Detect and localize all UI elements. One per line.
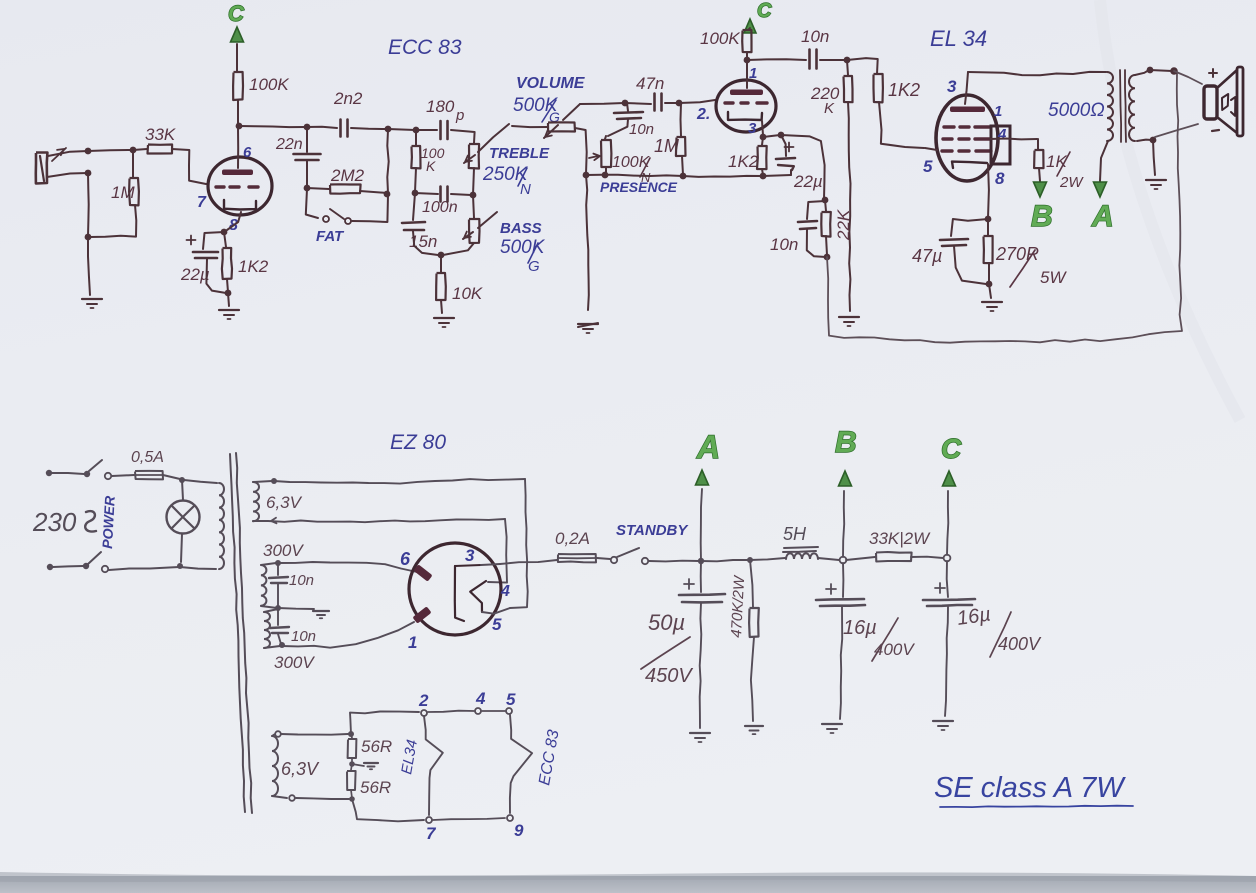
heater EL34 run	[424, 716, 443, 815]
node plate2	[744, 57, 751, 64]
svg-text:6,3V: 6,3V	[266, 493, 303, 512]
node grid2	[676, 100, 683, 107]
svg-text:1: 1	[749, 65, 757, 82]
pin 3 label (EL34)	[947, 77, 957, 96]
transformer OT secondary	[1129, 75, 1135, 141]
svg-text:300V: 300V	[263, 541, 304, 560]
pin 4 label (EL34)	[997, 126, 1007, 143]
wire heater bottom bus	[352, 799, 424, 821]
resistor 100K (second plate load)	[700, 28, 752, 59]
ground (hum balance)	[352, 763, 378, 769]
triode ECC83b	[716, 61, 776, 132]
node 6.3V top	[271, 478, 277, 484]
wire cathode2 down	[762, 121, 763, 135]
resistor 22K (feedback)	[821, 200, 853, 255]
svg-text:2M2: 2M2	[330, 166, 365, 185]
svg-text:PRESENCE: PRESENCE	[600, 179, 678, 195]
wire sec bottom ground	[1153, 140, 1155, 175]
node treble bottom	[470, 192, 477, 199]
ground (tone stack)	[434, 318, 454, 327]
wire to ground cathode1	[228, 293, 229, 306]
svg-text:B: B	[835, 426, 857, 459]
resistor 470K 2W (bleeder)	[728, 560, 759, 721]
svg-text:5W: 5W	[1040, 268, 1067, 287]
capacitor 10n (snubber upper)	[269, 563, 314, 607]
capacitor 180p	[416, 97, 475, 143]
node 22n bottom	[304, 185, 311, 192]
label 6,3V (heaters)	[281, 759, 320, 779]
svg-text:56R: 56R	[361, 737, 392, 756]
pin 8 label (EL34)	[995, 169, 1005, 188]
svg-text:10n: 10n	[629, 121, 654, 138]
node cathode EL34	[985, 216, 992, 223]
svg-text:7: 7	[426, 824, 437, 843]
svg-text:ECC 83: ECC 83	[388, 36, 462, 59]
capacitor 10n (snubber lower)	[270, 608, 316, 645]
node slope bottom	[412, 190, 419, 197]
pot PRESENCE 100K	[589, 136, 678, 195]
node cathode1	[221, 229, 228, 236]
wire to speaker plus	[1174, 71, 1202, 84]
svg-text:5: 5	[492, 615, 502, 634]
node 22n tap	[304, 124, 311, 131]
capacitor 16u 400V (B filter)	[816, 563, 915, 719]
wire heater 2 link	[296, 798, 349, 799]
triode ECC83a	[208, 128, 272, 215]
node lamp bottom	[177, 563, 183, 569]
transformer PT primary	[219, 483, 224, 569]
wire bottom rail 3	[763, 175, 791, 176]
svg-text:1K2: 1K2	[888, 80, 920, 100]
svg-text:4: 4	[500, 583, 510, 600]
node C rail	[944, 555, 951, 562]
capacitor 16u 400V (C filter)	[923, 561, 1042, 716]
wire lamp bottom to primary	[180, 567, 216, 569]
node A (reservoir arrow)	[696, 429, 721, 561]
capacitor 47u (EL34 bypass)	[912, 219, 988, 284]
node secondary top 2 (NFB tap)	[1170, 67, 1178, 75]
label ECC 83	[388, 36, 462, 59]
capacitor 15n	[402, 193, 438, 255]
node B (screen supply arrow)	[1031, 182, 1053, 233]
pin 9 contact	[507, 815, 513, 821]
wire bus 4-5	[482, 710, 505, 712]
wire to pin2	[679, 100, 715, 103]
resistor 56R lower	[347, 764, 391, 798]
node 1M2 bottom	[680, 173, 687, 180]
node 22u2 tap	[778, 132, 785, 139]
svg-text:2n2: 2n2	[333, 89, 363, 108]
wire 300V bottom to EZ80 plate1	[282, 622, 414, 648]
svg-text:10K: 10K	[452, 284, 483, 303]
ground (220K)	[839, 317, 859, 326]
svg-text:SE class A 7W: SE class A 7W	[934, 772, 1126, 804]
wire volume wiper to 47n	[580, 103, 624, 104]
label EL 34	[930, 26, 987, 51]
node lamp top	[179, 477, 185, 483]
resistor 100K (slope)	[411, 130, 444, 192]
choke 5H	[783, 524, 839, 560]
capacitor 50u 450V (reservoir)	[641, 561, 725, 728]
label 300V lower	[274, 653, 315, 672]
svg-text:6,3V: 6,3V	[281, 759, 320, 779]
wire NFB loop	[827, 73, 1182, 343]
wire bottom rail 2	[683, 176, 763, 177]
capacitor 22u (first cathode bypass)	[180, 232, 226, 293]
svg-text:A: A	[1091, 200, 1114, 233]
wire A to 470K	[701, 560, 749, 561]
svg-text:FAT: FAT	[316, 228, 345, 245]
svg-text:EL 34: EL 34	[930, 26, 987, 51]
svg-text:47µ: 47µ	[912, 246, 942, 266]
transformer PT 6.3V winding 2	[272, 734, 287, 798]
resistor 10K	[436, 255, 483, 313]
fuse 0,2A	[500, 529, 610, 564]
capacitor 22n	[275, 127, 321, 187]
svg-text:8: 8	[995, 169, 1005, 188]
wire cathode2 to 22u	[763, 135, 780, 137]
node 2M2 right	[384, 191, 391, 198]
wire heater bus up	[350, 712, 419, 735]
wire to speaker minus	[1155, 124, 1198, 137]
label ECC 83 (heater)	[536, 728, 562, 786]
node B rail	[840, 557, 847, 564]
svg-text:C: C	[757, 0, 772, 22]
pot VOLUME 500K	[512, 75, 587, 174]
node 2M2 left top	[385, 126, 392, 133]
resistor 56R upper	[348, 734, 393, 763]
node input ground rail	[85, 234, 92, 241]
transformer PT HT winding lower	[264, 609, 280, 648]
svg-text:5: 5	[506, 690, 516, 709]
svg-text:16µ: 16µ	[843, 617, 877, 639]
label EL34 (heater)	[398, 738, 421, 775]
svg-text:100K: 100K	[249, 75, 289, 94]
svg-text:K: K	[824, 100, 835, 117]
node C (second stage arrow)	[744, 0, 772, 33]
svg-text:K: K	[426, 158, 436, 174]
svg-text:22µ: 22µ	[793, 172, 823, 191]
svg-text:B: B	[1031, 200, 1053, 233]
capacitor 22u (second cathode bypass)	[776, 135, 823, 191]
svg-text:47n: 47n	[636, 74, 664, 93]
pin 4 label (heater)	[475, 689, 486, 708]
switch STANDBY	[611, 522, 699, 564]
svg-text:400V: 400V	[998, 634, 1042, 654]
pin 7 label (heater)	[426, 824, 437, 843]
svg-text:10n: 10n	[289, 572, 314, 589]
node cathode2 bottom	[760, 173, 767, 180]
wire plate1 to 2n2 node	[239, 126, 306, 127]
wire fuse to primary	[184, 480, 217, 483]
transformer OT primary	[1107, 72, 1113, 141]
pin 6 label	[243, 144, 252, 161]
terminal 6.3V-2 top	[275, 731, 281, 737]
svg-text:2: 2	[418, 691, 429, 710]
pin 8 label	[229, 217, 238, 234]
svg-text:EZ 80: EZ 80	[390, 431, 446, 454]
wire EL34 plate top	[968, 72, 1106, 75]
svg-text:6: 6	[400, 549, 411, 569]
pin 3 label (ECC83b)	[748, 120, 757, 137]
wire heater top bus	[281, 733, 348, 736]
svg-text:VOLUME: VOLUME	[516, 75, 586, 92]
svg-text:16µ: 16µ	[956, 603, 993, 629]
svg-text:2.: 2.	[696, 106, 710, 123]
svg-text:1: 1	[994, 103, 1002, 120]
transformer PT HT winding upper	[261, 563, 277, 608]
transformer PT core	[230, 453, 252, 813]
node C (supply arrow, first stage)	[228, 1, 245, 71]
node tone stack top	[413, 127, 420, 134]
switch POWER pole 1	[84, 460, 134, 479]
resistor 1M (input grid leak)	[90, 150, 139, 237]
node A rail	[698, 558, 704, 564]
pin 5 label (EL34)	[923, 157, 933, 176]
wire EL34 screen tap	[990, 138, 1037, 141]
svg-text:3: 3	[947, 77, 957, 96]
pin 1 label (EL34)	[994, 103, 1002, 120]
node plate1	[236, 123, 243, 130]
svg-text:33K|2W: 33K|2W	[869, 529, 931, 548]
resistor 1K 2W (screen)	[1034, 139, 1084, 191]
svg-text:22K: 22K	[834, 209, 853, 241]
node B (filter arrow)	[835, 426, 857, 557]
node presence bottom	[602, 172, 609, 179]
svg-text:4: 4	[997, 126, 1007, 143]
mains terminal N	[47, 564, 83, 570]
svg-text:A: A	[696, 429, 720, 465]
svg-text:3: 3	[748, 120, 757, 137]
node 300V top	[275, 560, 281, 566]
rectifier EZ80	[409, 543, 510, 635]
resistor 2M2	[307, 166, 387, 194]
wire secondary top	[1135, 70, 1149, 75]
resistor 1M (second grid leak)	[654, 103, 686, 175]
ground (input)	[82, 299, 102, 308]
svg-text:1K2: 1K2	[728, 152, 759, 171]
pin 9 label (heater)	[514, 821, 524, 840]
wire 300V top to EZ80 plate6	[278, 562, 417, 572]
svg-text:470K/2W: 470K/2W	[728, 574, 748, 638]
svg-text:22n: 22n	[275, 136, 303, 153]
svg-text:2W: 2W	[1059, 174, 1084, 191]
svg-text:G: G	[528, 258, 540, 275]
svg-text:4: 4	[475, 689, 486, 708]
node 300V bottom	[279, 642, 285, 648]
svg-text:0,5A: 0,5A	[131, 449, 164, 466]
svg-text:50µ: 50µ	[648, 610, 685, 635]
wire 2M2 branch vertical	[387, 130, 388, 193]
capacitor 47n	[625, 74, 678, 111]
svg-text:0,2A: 0,2A	[555, 529, 590, 548]
node HT center tap	[275, 605, 281, 611]
node secondary bottom	[1150, 137, 1157, 144]
ground (bleeder)	[745, 726, 763, 734]
wire EL34 grid entry	[925, 148, 937, 150]
svg-text:100K: 100K	[700, 29, 740, 48]
svg-text:STANDBY: STANDBY	[616, 522, 689, 539]
input jack	[36, 148, 88, 184]
pentode EL34	[936, 72, 1010, 181]
wire nfb to 22K	[781, 135, 825, 199]
node cathode EL34 bottom	[986, 281, 993, 288]
capacitor 2n2	[307, 89, 386, 137]
wire to input ground	[88, 237, 90, 295]
wire cathode1 down	[227, 212, 241, 230]
svg-text:10n: 10n	[770, 235, 798, 254]
node A (plate supply arrow)	[1091, 141, 1114, 233]
label 5000 ohm	[1048, 100, 1105, 121]
wire sec top 2	[1150, 70, 1172, 71]
switch POWER pole 2	[83, 552, 179, 572]
ground (reservoir)	[690, 733, 710, 742]
label 6,3V (rectifier heater)	[266, 493, 303, 512]
wire bus 7-9	[433, 818, 505, 820]
wire EL34 cathode ground	[989, 284, 991, 298]
pin 4 contact	[475, 708, 481, 714]
node 470K top	[747, 557, 753, 563]
svg-text:56R: 56R	[360, 778, 391, 797]
svg-text:22µ: 22µ	[180, 265, 210, 284]
pin 5 label (EZ80)	[492, 615, 502, 634]
pin 6 label (EZ80)	[400, 549, 411, 569]
node 22K bottom	[824, 254, 831, 261]
pin 1 label (ECC83b)	[749, 65, 757, 82]
ground (HT center tap)	[313, 611, 329, 618]
resistor 1K2 (EL34 grid stopper)	[847, 58, 924, 148]
mains terminal L	[46, 470, 84, 476]
svg-text:33K: 33K	[145, 125, 176, 144]
node 56R top	[348, 731, 354, 737]
svg-text:1M: 1M	[111, 183, 135, 202]
svg-text:N: N	[520, 181, 531, 198]
node cathode2	[760, 134, 767, 141]
wire bottom rail	[586, 175, 683, 176]
svg-text:5000Ω: 5000Ω	[1048, 100, 1105, 121]
wire 6.3V to EZ80 pin5	[274, 479, 528, 608]
svg-text:POWER: POWER	[99, 495, 118, 550]
pin 2 contact	[421, 710, 427, 716]
switch FAT	[306, 189, 388, 245]
wire center tap ground	[278, 608, 314, 609]
capacitor 10n (coupling)	[747, 27, 846, 69]
node 56R bottom	[349, 796, 355, 802]
node jack tip	[85, 148, 92, 155]
svg-text:400V: 400V	[874, 640, 915, 659]
svg-text:C: C	[228, 1, 245, 26]
capacitor 10n (feedback)	[770, 201, 826, 257]
pot TREBLE 250K	[464, 124, 550, 198]
svg-text:TREBLE: TREBLE	[489, 145, 550, 162]
resistor 270R 5W (EL34 cathode)	[984, 219, 1068, 287]
pin 7 label	[197, 194, 207, 211]
wire bus 2-4	[428, 711, 474, 712]
node bass bottom	[438, 252, 445, 259]
svg-text:5H: 5H	[783, 524, 807, 544]
pot BASS 500K	[443, 195, 546, 275]
svg-text:10n: 10n	[291, 628, 316, 645]
pin 1 label (EZ80)	[408, 633, 417, 652]
svg-text:230: 230	[32, 507, 77, 537]
wire cathode EL34 down	[987, 164, 990, 218]
ground (C filter)	[933, 721, 953, 730]
svg-text:450V: 450V	[645, 665, 693, 687]
label 300V upper	[263, 541, 304, 560]
wire sleeve down	[87, 173, 90, 236]
svg-text:p: p	[455, 107, 464, 124]
node cathode1 bottom	[225, 290, 232, 297]
resistor 33K (grid stopper)	[133, 125, 206, 184]
node 22K top	[822, 197, 829, 204]
resistor 220K (grid return)	[810, 60, 853, 311]
svg-text:3: 3	[465, 546, 475, 565]
svg-text:180: 180	[426, 97, 455, 116]
wire 470K to choke	[750, 558, 785, 560]
title SE class A 7W	[934, 772, 1133, 807]
wire EZ80 cathode out	[481, 564, 500, 565]
ground (preamp mid)	[578, 323, 598, 333]
label POWER	[99, 495, 118, 550]
resistor 33K 2W (B to C)	[846, 529, 943, 562]
label EZ 80	[390, 431, 446, 454]
pin 4 label (EZ80)	[500, 583, 510, 600]
wire 6.3V to EZ80 pin4	[268, 518, 507, 583]
node 56R center	[349, 761, 355, 767]
terminal 6.3V-2 bottom	[289, 795, 295, 801]
heater ECC83 run	[510, 715, 532, 813]
svg-text:1K2: 1K2	[238, 257, 269, 276]
capacitor 100n	[415, 187, 471, 217]
wire secondary bottom	[1137, 140, 1152, 141]
node volume bottom	[583, 172, 590, 179]
resistor 1K2 (second cathode)	[728, 137, 767, 175]
node 1M top	[130, 147, 137, 154]
ground (speaker)	[1146, 180, 1166, 189]
svg-text:6: 6	[243, 144, 252, 161]
capacitor 10n (presence)	[608, 103, 654, 138]
resistor 1K2 (first cathode)	[222, 232, 269, 292]
node coupling out	[844, 57, 851, 64]
svg-text:7: 7	[197, 194, 207, 211]
pin 7 contact	[426, 817, 432, 823]
svg-text:10n: 10n	[801, 27, 829, 46]
node secondary top 1	[1147, 67, 1154, 74]
lamp (pilot light)	[167, 480, 200, 562]
svg-text:C: C	[941, 433, 962, 464]
label 230V mains	[32, 507, 96, 537]
transformer OT core	[1120, 70, 1126, 142]
pin 5 contact	[506, 708, 512, 714]
fuse 0,5A	[131, 449, 180, 479]
pin 2 label (ECC83b)	[696, 106, 710, 123]
svg-text:BASS: BASS	[500, 220, 542, 237]
speaker	[1204, 67, 1243, 136]
wire to tone stack top	[388, 129, 415, 130]
transformer PT 6.3V winding 1	[253, 481, 272, 521]
ground (first cathode)	[219, 310, 239, 319]
pin 2 label (heater)	[418, 691, 429, 710]
wire presence ground drop	[586, 175, 589, 310]
node C (filter arrow)	[941, 433, 962, 555]
svg-text:1: 1	[408, 633, 417, 652]
node presence tap	[622, 100, 629, 107]
svg-text:300V: 300V	[274, 653, 315, 672]
svg-text:5: 5	[923, 157, 933, 176]
ground (EL34 cathode)	[982, 302, 1002, 311]
pin 3 label (EZ80)	[465, 546, 475, 565]
resistor 100K (first stage plate load)	[233, 72, 289, 125]
